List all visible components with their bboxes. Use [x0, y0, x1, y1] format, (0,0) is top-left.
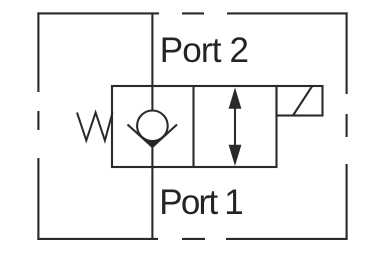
flow arrow shaft: [234, 100, 236, 153]
wire port 2 line: [151, 13, 153, 112]
label Port 2: [160, 31, 248, 71]
label Port 1: [159, 183, 242, 223]
solenoid coil box: [277, 86, 323, 116]
spring W: [77, 113, 113, 141]
flow arrow head down: [229, 145, 242, 166]
enclosure dashed border right: [346, 12, 348, 240]
check valve seat wedge fill: [144, 138, 161, 147]
valve divider: [192, 86, 194, 167]
check valve poppet circle: [137, 111, 168, 142]
valve body box: [112, 86, 277, 167]
check valve seat V: [128, 125, 178, 148]
enclosure dashed border top: [37, 12, 347, 14]
enclosure dashed border bottom: [37, 238, 347, 240]
wire port 1 line: [151, 145, 153, 240]
solenoid diagonal: [293, 86, 312, 115]
flow arrow head up: [229, 88, 242, 109]
enclosure dashed border left: [37, 12, 39, 240]
